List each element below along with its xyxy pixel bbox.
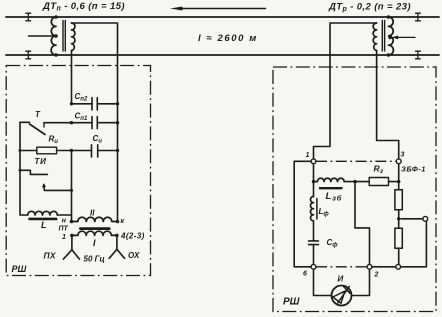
svg-text:ПТ: ПТ (59, 226, 69, 233)
svg-text:ДТп - 0,6 (п = 15): ДТп - 0,6 (п = 15) (42, 1, 125, 13)
svg-text:Lзб: Lзб (326, 191, 343, 203)
svg-text:6: 6 (303, 271, 307, 278)
svg-text:1: 1 (306, 152, 310, 159)
svg-text:к: к (121, 218, 125, 225)
svg-text:ПХ: ПХ (44, 251, 57, 261)
svg-text:3: 3 (401, 152, 405, 159)
svg-text:ОХ: ОХ (128, 251, 140, 260)
svg-text:4(2-3): 4(2-3) (120, 232, 145, 241)
svg-text:И: И (338, 275, 344, 284)
svg-text:2: 2 (374, 272, 379, 279)
svg-text:ЗБФ-1: ЗБФ-1 (401, 165, 426, 174)
svg-text:ДТр - 0,2 (п = 23): ДТр - 0,2 (п = 23) (328, 2, 411, 14)
svg-text:L: L (41, 220, 47, 230)
svg-text:1: 1 (62, 234, 66, 241)
svg-text:РШ: РШ (283, 297, 300, 308)
svg-text:РШ: РШ (12, 264, 27, 274)
svg-text:ТИ: ТИ (35, 157, 47, 166)
svg-text:II: II (90, 209, 95, 218)
svg-text:l ≈ 2600 м: l ≈ 2600 м (198, 33, 258, 44)
svg-text:50 Гц: 50 Гц (84, 255, 105, 264)
